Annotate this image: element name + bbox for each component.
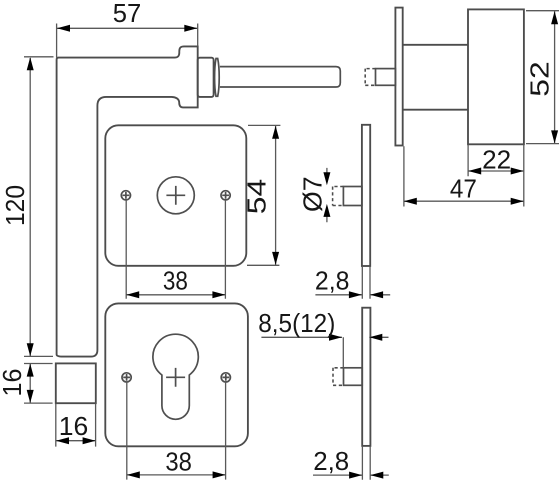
svg-text:38: 38 xyxy=(163,266,188,296)
svg-text:120: 120 xyxy=(0,185,30,226)
svg-text:Ø7: Ø7 xyxy=(298,177,328,213)
svg-text:2,8: 2,8 xyxy=(315,265,350,295)
svg-text:57: 57 xyxy=(113,0,142,28)
svg-text:2,8: 2,8 xyxy=(313,446,349,476)
svg-text:54: 54 xyxy=(242,179,272,215)
svg-text:16: 16 xyxy=(59,411,89,441)
svg-text:52: 52 xyxy=(525,61,555,97)
svg-text:22: 22 xyxy=(482,145,511,175)
svg-text:8,5(12): 8,5(12) xyxy=(258,308,335,338)
svg-text:38: 38 xyxy=(165,447,192,477)
svg-text:47: 47 xyxy=(450,173,477,203)
svg-text:16: 16 xyxy=(0,369,27,397)
